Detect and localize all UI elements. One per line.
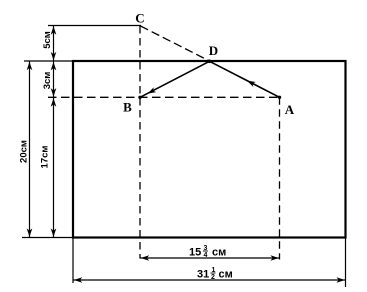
svg-text:31: 31: [197, 269, 209, 281]
svg-text:17см: 17см: [39, 146, 50, 169]
svg-text:A: A: [285, 102, 295, 117]
svg-text:B: B: [123, 100, 132, 115]
svg-text:2: 2: [211, 274, 215, 281]
svg-text:D: D: [209, 43, 218, 58]
svg-text:C: C: [135, 11, 144, 26]
svg-text:20см: 20см: [18, 140, 29, 163]
svg-text:15: 15: [189, 247, 201, 259]
svg-text:5см: 5см: [42, 31, 53, 49]
svg-text:см: см: [219, 269, 233, 281]
svg-text:4: 4: [204, 252, 208, 259]
svg-text:3см: 3см: [42, 72, 53, 90]
svg-text:см: см: [212, 247, 226, 259]
